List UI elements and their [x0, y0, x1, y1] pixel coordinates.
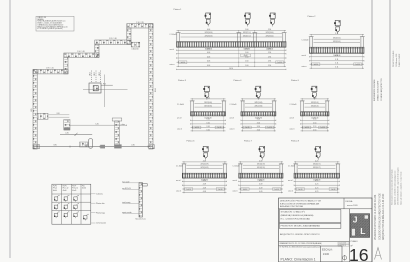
- svg-text:1x0.16: 1x0.16: [305, 127, 310, 129]
- portico 1 beam: longitudinal rebar line 1: [181, 32, 283, 34]
- svg-text:16: 16: [349, 245, 369, 262]
- portico 3 beam: extension lines at supports: [192, 99, 224, 131]
- portico 1 beam: top dimension line: [177, 29, 287, 31]
- svg-text:1.90 1.45: 1.90 1.45: [77, 51, 85, 53]
- plan: interior short vertical wall: [64, 120, 70, 131]
- svg-text:6.06: 6.06: [207, 49, 210, 51]
- portico 1 beam: extension lines at supports: [178, 31, 284, 67]
- svg-text:1.60: 1.60: [245, 49, 248, 51]
- svg-text:2Ø12(2.10): 2Ø12(2.10): [243, 32, 251, 34]
- portico 6 beam: beam body with stirrups: [182, 173, 226, 178]
- portico 6 beam: dimension line 1: [182, 180, 226, 182]
- svg-text:5.11: 5.11: [335, 67, 338, 69]
- portico 6 beam: support post 1: [182, 164, 187, 178]
- svg-text:COLEGIO OFICIAL DE ARQUITECTOS: COLEGIO OFICIAL DE ARQUITECTOS Y DE: [378, 193, 381, 240]
- svg-text:1/100: 1/100: [323, 253, 330, 256]
- portico 4 beam: support post 2: [272, 101, 277, 116]
- svg-text:2Ø12(4.59): 2Ø12(4.59): [201, 167, 209, 169]
- svg-text:5.11: 5.11: [335, 33, 338, 35]
- svg-text:1.60: 1.60: [245, 61, 248, 63]
- plan: vertical slot symbol: [89, 139, 93, 149]
- portico 8 beam: support post 2: [335, 164, 340, 178]
- portico 5 beam: longitudinal rebar line 2: [305, 106, 326, 108]
- portico 4 beam: left side labels: [230, 104, 237, 131]
- svg-text:2Ø12(3.66): 2Ø12(3.66): [254, 102, 262, 104]
- portico 4 beam: longitudinal rebar line 2: [245, 106, 272, 108]
- svg-text:4.45: 4.45: [65, 133, 68, 135]
- portico 7 beam: left anchor text box: [241, 188, 249, 191]
- svg-text:2.51: 2.51: [313, 126, 316, 128]
- portico 3 beam: left side labels: [177, 104, 184, 131]
- portico 2 beam: longitudinal rebar line 1: [314, 38, 361, 40]
- portico 7 beam: dimension line 2: [239, 184, 283, 186]
- portico 8 beam: extension lines at supports: [296, 162, 338, 193]
- svg-text:1x0.16: 1x0.16: [275, 189, 280, 191]
- portico 6 beam: left side labels: [176, 166, 183, 193]
- svg-text:(MANILVA) DEHESILLA (MÁLAGA): (MANILVA) DEHESILLA (MÁLAGA): [281, 214, 314, 217]
- svg-text:4.21: 4.21: [315, 160, 318, 162]
- svg-text:2Ø12(6.56): 2Ø12(6.56): [205, 36, 213, 38]
- plan: top-right wall f: [127, 24, 153, 28]
- svg-text:3.16: 3.16: [257, 122, 260, 124]
- svg-text:2Ø12(2.10): 2Ø12(2.10): [243, 36, 251, 38]
- right strip upper text block: [374, 78, 383, 101]
- svg-text:5.11: 5.11: [335, 55, 338, 57]
- svg-text:P3,P7: P3,P7: [72, 185, 76, 187]
- portico 2 beam: extension lines at supports: [311, 35, 362, 68]
- svg-text:C.1 40x40: C.1 40x40: [288, 166, 295, 168]
- svg-text:4.21: 4.21: [315, 184, 318, 186]
- portico 5 beam: support post 2: [325, 101, 330, 116]
- plan: small block on bottom edge: [100, 145, 105, 149]
- portico 8 beam: right anchor text box: [329, 188, 337, 191]
- portico 3 beam: support post 2: [221, 101, 226, 116]
- plan: step wall vertical c: [95, 44, 99, 57]
- svg-text:2Ø12(3.66): 2Ø12(3.66): [254, 106, 262, 108]
- portico 1 beam: left side labels: [170, 34, 177, 66]
- plano n label: [351, 240, 358, 247]
- portico 4 beam: beam body with stirrups: [241, 112, 276, 116]
- portico 8 beam: dimension line 4: [294, 191, 340, 193]
- svg-text:2Ø12(3.01): 2Ø12(3.01): [311, 106, 319, 108]
- svg-text:4.21: 4.21: [315, 191, 318, 193]
- title block situacion text: [281, 211, 314, 221]
- svg-text:2.94: 2.94: [268, 52, 271, 54]
- svg-text:1x0.16: 1x0.16: [218, 189, 223, 191]
- plan: pad footing leader: [101, 84, 113, 86]
- svg-text:P10 a 12: P10 a 12: [63, 188, 69, 190]
- plan: interior wall base block: [114, 144, 121, 148]
- svg-text:40x40: 40x40: [72, 190, 76, 192]
- portico 4 beam: extension lines at supports: [243, 99, 275, 131]
- svg-text:2Ø12(3.44): 2Ø12(3.44): [266, 32, 274, 34]
- portico 7 beam: longitudinal rebar line 2: [243, 167, 279, 169]
- svg-text:2Ø12(5.61): 2Ø12(5.61): [333, 38, 341, 40]
- logo box: [350, 214, 369, 238]
- svg-text:3.85: 3.85: [53, 144, 56, 146]
- outer margin lower text: [391, 167, 403, 205]
- svg-text:2Ø12(3.66): 2Ø12(3.66): [204, 106, 212, 108]
- portico 2 beam: beam body with stirrups: [310, 47, 365, 53]
- svg-text:PLANO: PLANO: [351, 240, 358, 243]
- svg-text:30x30: 30x30: [82, 188, 86, 190]
- portico 4 beam: dimension line 4: [241, 129, 276, 131]
- portico 4 beam: top dimension line: [241, 97, 276, 99]
- plan notes box: [36, 16, 74, 31]
- title block line under arquitecto: [279, 241, 350, 243]
- svg-text:P13 y 14: P13 y 14: [72, 188, 78, 190]
- escala box: [321, 246, 343, 262]
- portico 6 beam: longitudinal rebar line 2: [186, 167, 222, 169]
- svg-text:4.09: 4.09: [203, 191, 206, 193]
- portico 1 beam: support post 1: [176, 33, 181, 48]
- svg-text:EJECUCIÓN DE VIVIENDA UNIFAMIL: EJECUCIÓN DE VIVIENDA UNIFAMILIAR: [280, 202, 320, 205]
- portico 2 beam: dimension line 1: [310, 55, 365, 57]
- portico 2 beam: longitudinal rebar line 2: [314, 41, 361, 43]
- svg-text:40x40: 40x40: [63, 190, 67, 192]
- title block situacion box: [279, 210, 341, 223]
- plan: step wall horizontal b: [64, 53, 99, 57]
- portico 8 beam: top dimension line: [294, 160, 340, 162]
- portico 6 beam: column start symbol 1: [202, 146, 208, 159]
- portico 5 beam: extension lines at supports: [302, 99, 327, 131]
- svg-text:C.1 40x40: C.1 40x40: [290, 104, 297, 106]
- svg-text:2.94: 2.94: [268, 29, 271, 31]
- compass circle symbol: [343, 255, 347, 261]
- outer margin upper text: [392, 50, 401, 67]
- svg-text:4.09: 4.09: [259, 191, 262, 193]
- svg-text:4.09: 4.09: [259, 180, 262, 182]
- svg-text:C.1 40x40: C.1 40x40: [177, 104, 184, 106]
- svg-text:Planta alta: Planta alta: [96, 202, 105, 205]
- svg-text:4.09: 4.09: [259, 184, 262, 186]
- svg-text:4.09: 4.09: [203, 160, 206, 162]
- svg-text:VISADO ESTATUTARIO 12-03-2020: VISADO ESTATUTARIO 12-03-2020 N.1234: [374, 194, 377, 240]
- svg-text:L: L: [360, 226, 365, 236]
- detail table grid: [52, 184, 91, 224]
- portico 2 beam: right anchor text box: [354, 63, 362, 66]
- svg-text:6.06: 6.06: [207, 29, 210, 31]
- svg-text:ARQUITECTOS DE MÁLAGA C.O.A.M.: ARQUITECTOS DE MÁLAGA C.O.A.M. 2020: [382, 193, 385, 240]
- svg-text:3.16: 3.16: [206, 129, 209, 131]
- right strip signature mark: [375, 248, 382, 260]
- portico 3 beam: column start symbol 1: [203, 86, 209, 99]
- portico 6 beam: support post 2: [223, 164, 228, 178]
- portico 7 beam: column start symbol 1: [259, 146, 265, 159]
- title block descripcion text: [280, 200, 322, 209]
- svg-text:DESCRIPCIÓN: PROYECTO BÁSICO: DESCRIPCIÓN: PROYECTO BÁSICO Y DE: [280, 200, 322, 203]
- detail table floor labels: [91, 193, 96, 195]
- svg-text:1x0.16: 1x0.16: [181, 62, 186, 64]
- portico 7 beam: top dimension line: [239, 160, 283, 162]
- portico 5 beam: column start symbol 1: [311, 86, 317, 99]
- svg-text:6.06: 6.06: [207, 65, 210, 67]
- svg-text:40x40: 40x40: [244, 55, 248, 57]
- svg-text:1x0.16: 1x0.16: [217, 127, 222, 129]
- detail table start symbols: [54, 196, 60, 202]
- svg-text:C.1 40x40: C.1 40x40: [302, 40, 309, 42]
- svg-text:2Ø12(4.59): 2Ø12(4.59): [257, 164, 265, 166]
- svg-text:P2,P6: P2,P6: [63, 185, 67, 187]
- portico 3 beam: dimension line 4: [191, 129, 226, 131]
- portico 7 beam: dimension line 3: [239, 187, 283, 189]
- portico 3 beam: left anchor text box: [193, 126, 201, 129]
- portico 8 beam: dimension line 2: [294, 184, 340, 186]
- svg-text:2.95 1.15: 2.95 1.15: [46, 68, 54, 70]
- svg-text:6.06: 6.06: [207, 52, 210, 54]
- portico 4 beam: right anchor text box: [266, 126, 274, 129]
- plan: left wall: [33, 70, 37, 150]
- svg-text:Pórtico 7: Pórtico 7: [244, 140, 253, 143]
- svg-text:arm.inf: arm.inf: [302, 55, 307, 57]
- portico 4 beam: column start symbol 1: [255, 86, 261, 99]
- portico 7 beam: dimension line 1: [239, 180, 283, 182]
- portico 1 beam: column start symbol 1: [205, 13, 211, 26]
- portico 7 beam: extension lines at supports: [240, 162, 281, 193]
- svg-text:1Ø12: 1Ø12: [99, 72, 101, 76]
- svg-text:2Ø12(4.71): 2Ø12(4.71): [313, 164, 321, 166]
- svg-text:1Ø12: 1Ø12: [94, 72, 96, 76]
- svg-text:2.51: 2.51: [313, 129, 316, 131]
- svg-text:1x0.16: 1x0.16: [243, 189, 248, 191]
- svg-text:2Ø12(4.59): 2Ø12(4.59): [201, 164, 209, 166]
- svg-text:Pórtico 3: Pórtico 3: [178, 79, 187, 82]
- svg-text:Pórtico 5: Pórtico 5: [291, 79, 300, 82]
- svg-text:arm.inf: arm.inf: [233, 180, 238, 182]
- portico 7 beam: longitudinal rebar line 1: [243, 164, 279, 166]
- svg-text:2Ø12(4.59): 2Ø12(4.59): [257, 167, 265, 169]
- svg-text:2Ø12(3.44): 2Ø12(3.44): [266, 36, 274, 38]
- plan: three dashed riser lines: [90, 71, 92, 84]
- portico 8 beam: dimension line 3: [294, 187, 340, 189]
- wall section detail: leader lines and labels: [122, 180, 139, 183]
- svg-text:SITUACIÓN: C/ BAUL Nº1: SITUACIÓN: C/ BAUL Nº1: [281, 211, 306, 214]
- plan: pad footing axis vertical: [104, 75, 106, 108]
- portico 1 beam: longitudinal rebar line 2: [181, 36, 283, 38]
- svg-text:2.94: 2.94: [268, 49, 271, 51]
- svg-text:P1,P5: P1,P5: [53, 185, 57, 187]
- plan: hatched stair block: [80, 142, 88, 147]
- portico 4 beam: longitudinal rebar line 1: [245, 102, 272, 104]
- right strip lower text block: [374, 193, 385, 240]
- portico 2 beam: left anchor text box: [312, 63, 320, 66]
- svg-text:3.16: 3.16: [206, 119, 209, 121]
- plan: top wall d: [95, 40, 131, 44]
- svg-text:2.94: 2.94: [268, 65, 271, 67]
- svg-text:Pórtico 6: Pórtico 6: [187, 140, 196, 143]
- portico 1 beam: column start symbol 2: [244, 13, 250, 26]
- svg-text:3.16: 3.16: [206, 122, 209, 124]
- svg-text:COLEGIO ARQUITECTOS: COLEGIO ARQUITECTOS: [380, 78, 383, 101]
- svg-text:P9 y 4: P9 y 4: [53, 188, 57, 190]
- svg-text:1.60: 1.60: [245, 29, 248, 31]
- svg-text:arm.inf: arm.inf: [288, 180, 293, 182]
- svg-text:C.1 40x40: C.1 40x40: [233, 166, 240, 168]
- portico 2 beam: support post 1: [309, 37, 314, 54]
- svg-text:p.baja: p.baja: [121, 124, 125, 126]
- svg-text:2.15: 2.15: [84, 144, 87, 146]
- title block outer box: [279, 198, 373, 262]
- portico 5 beam: longitudinal rebar line 1: [305, 102, 326, 104]
- portico 1 beam: support post 2: [236, 33, 241, 48]
- svg-text:40x40: 40x40: [53, 190, 57, 192]
- svg-text:1x0.16: 1x0.16: [186, 189, 191, 191]
- svg-text:Cimentación: Cimentación: [96, 222, 106, 225]
- portico 1 beam: support post 3: [252, 33, 257, 48]
- svg-text:4.09: 4.09: [203, 184, 206, 186]
- portico 1 beam: column start symbol 3: [269, 13, 275, 26]
- plan: interior short wall end cap: [64, 128, 70, 131]
- portico 2 beam: top dimension line: [310, 33, 365, 35]
- svg-text:Pórtico 1: Pórtico 1: [174, 8, 183, 11]
- portico 2 beam: column start symbol 1: [334, 20, 340, 33]
- wall section detail: top slab stub: [142, 184, 147, 186]
- portico 3 beam: support post 1: [190, 101, 195, 116]
- svg-text:1Ø12: 1Ø12: [90, 72, 92, 76]
- svg-text:1x0.16: 1x0.16: [298, 189, 303, 191]
- plan: interior vertical wall: [115, 121, 120, 146]
- svg-text:1x0.16: 1x0.16: [331, 189, 336, 191]
- portico 4 beam: dimension line 1: [241, 119, 276, 121]
- svg-text:4.09: 4.09: [259, 187, 262, 189]
- svg-text:6.06: 6.06: [207, 61, 210, 63]
- svg-text:C.1 40x40: C.1 40x40: [170, 34, 177, 36]
- svg-text:2.51: 2.51: [313, 97, 316, 99]
- plan: pad footing inner column: [93, 86, 98, 91]
- svg-text:1x0.16: 1x0.16: [245, 127, 250, 129]
- portico 3 beam: longitudinal rebar line 2: [195, 106, 222, 108]
- svg-text:FECHA: FECHA: [346, 200, 353, 203]
- title block promotor box: [279, 223, 341, 228]
- portico 1: total dimension row: [177, 68, 287, 70]
- svg-text:C.1 40x40: C.1 40x40: [176, 166, 183, 168]
- portico 7 beam: support post 1: [238, 164, 243, 178]
- portico 1 beam: dimension line 5: [177, 65, 287, 67]
- svg-text:3.16: 3.16: [257, 119, 260, 121]
- portico 1 beam: dimension line 3: [177, 56, 287, 58]
- svg-text:1x0.16: 1x0.16: [195, 127, 200, 129]
- portico 5 beam: dimension line 2: [301, 122, 330, 124]
- svg-text:4.09: 4.09: [259, 160, 262, 162]
- portico 8 beam: longitudinal rebar line 2: [298, 167, 336, 169]
- svg-text:Pórtico 2: Pórtico 2: [308, 15, 317, 18]
- svg-text:4.21: 4.21: [315, 180, 318, 182]
- plan: pad footing axis horizontal: [83, 89, 128, 91]
- svg-text:4.30: 4.30: [131, 144, 134, 146]
- svg-text:4.09: 4.09: [203, 180, 206, 182]
- portico 7 beam: left side labels: [233, 166, 240, 193]
- plan: bottom-left corner block: [33, 145, 40, 149]
- portico 4 beam: support post 1: [240, 101, 245, 116]
- svg-text:P16: P16: [82, 185, 85, 187]
- portico 5 beam: dimension line 4: [301, 129, 330, 131]
- portico 1 beam: right anchor text box: [276, 61, 284, 64]
- svg-text:4.21: 4.21: [315, 187, 318, 189]
- portico 3 beam: dimension line 3: [191, 126, 226, 128]
- portico 6 beam: dimension line 2: [182, 184, 226, 186]
- portico 6 beam: top dimension line: [182, 160, 226, 162]
- portico 3 beam: longitudinal rebar line 1: [195, 102, 222, 104]
- svg-text:PLANO: Cimentación 1: PLANO: Cimentación 1: [281, 257, 316, 261]
- svg-text:C.1 40x40: C.1 40x40: [230, 104, 237, 106]
- svg-text:2Ø12(6.56): 2Ø12(6.56): [205, 32, 213, 34]
- svg-text:P15: P15: [103, 83, 106, 85]
- title block fecha divider: [343, 198, 345, 209]
- svg-text:8.05: 8.05: [31, 108, 33, 111]
- portico 8 beam: dimension line 1: [294, 180, 340, 182]
- svg-text:12.45: 12.45: [155, 88, 157, 92]
- svg-text:2Ø12(5.61): 2Ø12(5.61): [333, 41, 341, 43]
- svg-text:2.51: 2.51: [313, 119, 316, 121]
- portico 2 beam: dimension line 4: [310, 67, 365, 69]
- portico 3 beam: beam body with stirrups: [191, 112, 226, 116]
- portico 5 beam: support post 1: [300, 101, 305, 116]
- svg-text:1.60: 1.60: [245, 65, 248, 67]
- plan: interior long dimension line: [69, 124, 126, 126]
- svg-text:2.94: 2.94: [268, 61, 271, 63]
- svg-text:J: J: [353, 215, 358, 225]
- portico 5 beam: right anchor text box: [319, 126, 327, 129]
- svg-text:Sección muro: Sección muro: [135, 217, 145, 220]
- portico 6 beam: dimension line 3: [182, 187, 226, 189]
- portico 8 beam: support post 1: [293, 164, 298, 178]
- svg-text:3.16: 3.16: [257, 129, 260, 131]
- svg-text:1x0.16: 1x0.16: [356, 64, 361, 66]
- plan: interior double line: [49, 113, 70, 117]
- portico 7 beam: support post 2: [279, 164, 284, 178]
- svg-text:1x0.16: 1x0.16: [321, 127, 326, 129]
- portico 1 beam: dimension line 4: [177, 61, 287, 63]
- svg-text:arm.inf: arm.inf: [230, 118, 235, 120]
- plan: footing stub at top wall end: [131, 42, 140, 47]
- portico 1: mid support annotation box: [241, 54, 251, 57]
- svg-text:1x0.16: 1x0.16: [278, 62, 283, 64]
- portico 5 beam: left anchor text box: [303, 126, 311, 129]
- sheet frame inner right border: [371, 0, 373, 262]
- portico 5 beam: dimension line 1: [301, 119, 330, 121]
- sheet frame left border: [9, 0, 11, 258]
- title block small print lines: [280, 242, 323, 248]
- svg-text:Pórtico 8: Pórtico 8: [291, 140, 300, 143]
- svg-text:VISADO 2020-01234 Nº: VISADO 2020-01234 Nº: [376, 80, 379, 101]
- plan interior dim line lower with break: [60, 133, 92, 135]
- title block right column divider: [349, 209, 351, 262]
- portico 4 beam: left anchor text box: [243, 126, 251, 129]
- plan: step wall vertical e: [127, 28, 131, 44]
- portico 3 beam: right anchor text box: [215, 126, 223, 129]
- plan: pad footing outer square: [89, 83, 101, 93]
- plan: step wall vertical a: [64, 57, 68, 74]
- portico 8 beam: left side labels: [288, 166, 295, 193]
- portico 5 beam: left side labels: [290, 104, 297, 131]
- title block line under small print: [279, 245, 321, 247]
- plan: bottom-left horizontal wall: [33, 70, 68, 74]
- portico 6 beam: longitudinal rebar line 1: [186, 164, 222, 166]
- portico 2 beam: support post 2: [360, 37, 365, 54]
- svg-text:5.11: 5.11: [335, 63, 338, 65]
- micro boxes right of small print: [338, 242, 349, 247]
- svg-text:Pórtico 4: Pórtico 4: [234, 79, 243, 82]
- plan: bottom dimension ticks: [36, 146, 38, 148]
- svg-text:2.94: 2.94: [268, 56, 271, 58]
- svg-text:3.16: 3.16: [206, 126, 209, 128]
- plan: right wall: [149, 24, 153, 149]
- portico 2 beam: dimension line 2: [310, 59, 365, 61]
- svg-text:2.08: 2.08: [56, 113, 59, 115]
- svg-text:3.16: 3.16: [206, 97, 209, 99]
- portico 6 beam: extension lines at supports: [184, 162, 225, 193]
- svg-text:Cubierta: Cubierta: [96, 193, 103, 196]
